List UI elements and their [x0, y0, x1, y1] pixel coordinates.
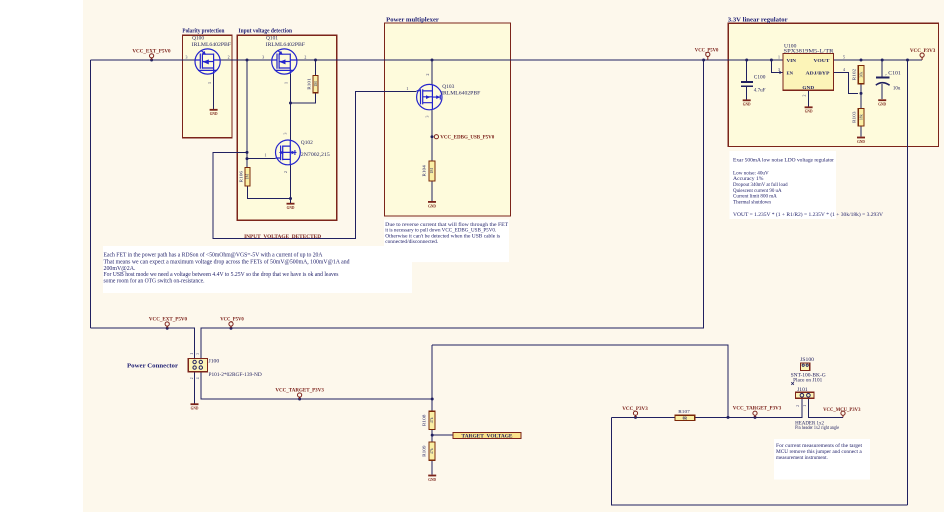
- resistor R109: [421, 442, 435, 460]
- junction detect loop upper: [246, 151, 249, 154]
- svg-text:2: 2: [228, 55, 230, 59]
- wire VCC_TARGET rail y345: [432, 345, 728, 417]
- wire Q103 source stem: [431, 60, 433, 85]
- svg-text:VIN: VIN: [787, 58, 797, 63]
- svg-text:3: 3: [426, 115, 430, 117]
- wire R101 top stem: [315, 60, 317, 75]
- svg-text:30k: 30k: [859, 72, 863, 78]
- junction Q101 gate R101: [289, 102, 292, 105]
- svg-text:1: 1: [190, 353, 194, 355]
- svg-text:1: 1: [406, 87, 408, 91]
- svg-text:47k: 47k: [430, 417, 434, 423]
- svg-text:200mV@2A.: 200mV@2A.: [104, 266, 137, 272]
- resistor R103: [852, 109, 864, 127]
- power flag VCC_P5V0 bottom: [220, 317, 244, 329]
- resistor R102: [852, 66, 864, 84]
- transistor Q103: [417, 84, 442, 109]
- transistor Q102: [276, 140, 301, 165]
- svg-text:C100: C100: [754, 76, 766, 81]
- junction R102 on VOUT rail: [860, 59, 863, 62]
- resistor R106: [238, 167, 250, 186]
- svg-text:2: 2: [803, 94, 807, 96]
- power flag VCC_MCU_P3V3: [823, 407, 861, 418]
- wire C100 stems: [746, 60, 748, 99]
- wire J100 pin4 VCC_TARGET_P3V3: [201, 372, 432, 399]
- junction VCC_P5V0 flag lower rail: [230, 327, 233, 330]
- svg-text:3.3V linear regulator: 3.3V linear regulator: [728, 17, 788, 24]
- note: current measurement jumper: [774, 439, 870, 480]
- ground Q100 gate: [210, 74, 218, 116]
- svg-text:GND: GND: [428, 203, 436, 208]
- svg-text:4: 4: [843, 68, 845, 72]
- transistor Q101: [272, 49, 297, 74]
- svg-text:1: 1: [803, 405, 807, 407]
- wire U100 GND pin stem: [808, 90, 810, 106]
- svg-text:For USB host mode we need a vo: For USB host mode we need a voltage betw…: [104, 272, 340, 278]
- svg-text:1M: 1M: [246, 174, 250, 180]
- wire INPUT_VOLTAGE_DETECTED loop to Q103 gate: [213, 92, 416, 239]
- svg-text:Input voltage detection: Input voltage detection: [239, 27, 293, 34]
- junction EN pin: [779, 71, 781, 73]
- svg-text:GND: GND: [857, 139, 865, 144]
- wire J101 pin2 to VCC_MCU_P3V3: [808, 398, 843, 417]
- svg-text:Power Connector: Power Connector: [127, 363, 178, 370]
- resistor R108: [421, 411, 435, 429]
- power flag VCC_P5V0 top: [695, 48, 719, 60]
- junction R101 on rail: [314, 59, 317, 62]
- svg-text:4.7uF: 4.7uF: [754, 89, 766, 94]
- junction VCC_EXT_P5V0 flag on rail: [150, 59, 153, 62]
- svg-text:R109: R109: [421, 444, 426, 456]
- power flag VCC_EXT_P5V0 bottom: [149, 317, 188, 329]
- svg-text:JS100: JS100: [800, 358, 815, 363]
- power flag VCC_TARGET_P3V3 bottom: [733, 406, 782, 418]
- svg-text:GND: GND: [210, 111, 218, 116]
- wire Q101 gate to Q102 drain: [290, 74, 292, 140]
- capacitor C100: [741, 76, 766, 94]
- wire U100 ADJ to divider: [834, 73, 859, 94]
- svg-text:ADJ/BYP: ADJ/BYP: [806, 70, 831, 75]
- junction VCC_EDBG_USB_P5V0 flag: [431, 135, 434, 138]
- U100 regulator body: [778, 45, 845, 97]
- wire VCC_P3V3 loop bottom and left vertical: [612, 417, 908, 505]
- svg-text:GND: GND: [802, 85, 814, 90]
- ground C100: [743, 99, 751, 106]
- svg-text:2: 2: [796, 405, 800, 407]
- block frame: Power multiplexer: [385, 17, 511, 217]
- svg-text:3: 3: [283, 132, 287, 134]
- wire J100 pin2 to GND: [194, 372, 196, 404]
- svg-text:Power multiplexer: Power multiplexer: [386, 17, 439, 24]
- title: Power Connector: [127, 363, 178, 370]
- svg-text:18k: 18k: [859, 114, 863, 120]
- svg-text:1: 1: [208, 82, 212, 84]
- svg-text:GND: GND: [428, 477, 436, 482]
- resistor R107: [675, 409, 695, 421]
- svg-text:connected/disconnected.: connected/disconnected.: [385, 239, 439, 245]
- power flag VCC_P3V3 bottom: [622, 406, 648, 417]
- wire R103 bottom to GND: [860, 126, 862, 137]
- svg-text:IRLML6402PBF: IRLML6402PBF: [266, 43, 306, 48]
- wire U100 EN from VIN rail: [771, 60, 783, 73]
- wire C101 stems: [881, 60, 883, 99]
- wire Q102 source to GND: [290, 165, 292, 203]
- svg-text:IRLML6402PBF: IRLML6402PBF: [192, 43, 232, 48]
- svg-text:1M: 1M: [314, 81, 318, 87]
- svg-text:0R: 0R: [683, 417, 688, 421]
- jumper JS100: [791, 358, 827, 385]
- svg-text:Q102: Q102: [301, 141, 314, 146]
- global label TARGET_VOLTAGE: [453, 432, 521, 439]
- svg-text:5: 5: [843, 55, 845, 59]
- wire divider node to TARGET_VOLTAGE label: [432, 434, 453, 436]
- svg-text:some room for an OTG switch on: some room for an OTG switch on-resistanc…: [104, 277, 206, 284]
- svg-text:3: 3: [262, 55, 264, 59]
- svg-text:VCC_TARGET_P3V3: VCC_TARGET_P3V3: [275, 387, 324, 393]
- junction ADJ divider node: [860, 92, 863, 95]
- svg-text:GND: GND: [743, 102, 751, 107]
- wire R106 bottom to Q102 source: [248, 186, 291, 198]
- power flag VCC_TARGET_P3V3 at J100: [275, 387, 324, 399]
- svg-text:1M: 1M: [430, 168, 434, 174]
- svg-text:J100: J100: [209, 359, 220, 364]
- svg-text:Thermal shutdown: Thermal shutdown: [733, 199, 771, 205]
- junction VCC_TARGET_P3V3 flag mid: [298, 398, 301, 401]
- svg-text:Exar 500mA low noise LDO volta: Exar 500mA low noise LDO voltage regulat…: [733, 158, 834, 164]
- svg-text:2: 2: [284, 171, 288, 173]
- junction VCC_P3V3 flag bottom: [634, 416, 637, 419]
- svg-text:measurement instrument.: measurement instrument.: [776, 455, 828, 461]
- power flag VCC_EXT_P5V0 top: [132, 48, 171, 60]
- junction C100 on rail: [745, 59, 748, 62]
- ground U100: [805, 106, 813, 113]
- svg-text:3: 3: [196, 353, 200, 355]
- svg-text:Place on J101: Place on J101: [793, 378, 823, 383]
- svg-text:2N7002,215: 2N7002,215: [301, 153, 331, 158]
- ground Q102 source: [287, 203, 295, 210]
- connector J101: [795, 388, 839, 431]
- svg-text:1: 1: [265, 154, 267, 158]
- junction Q102 gate: [246, 157, 249, 160]
- svg-text:, C101: , C101: [885, 72, 901, 77]
- wire A right of R107 to J101 pin1: [695, 398, 802, 417]
- svg-text:For current measurements of th: For current measurements of the target: [776, 442, 862, 449]
- wire R108 chain vertical: [431, 345, 433, 475]
- svg-text:EN: EN: [787, 70, 794, 75]
- wire Q103 drain to R104: [431, 109, 433, 161]
- junction input-detect tap on rail: [246, 59, 249, 62]
- resistor R104: [421, 161, 435, 181]
- svg-text:3: 3: [186, 55, 188, 59]
- wire A left of R107: [612, 416, 676, 418]
- connector J100: [188, 353, 262, 380]
- wire R104 bottom to GND: [431, 181, 433, 201]
- svg-text:R102: R102: [852, 69, 857, 81]
- ground R103: [857, 137, 865, 144]
- svg-text:Q103: Q103: [442, 85, 455, 90]
- svg-text:4: 4: [196, 377, 200, 379]
- svg-text:47k: 47k: [430, 448, 434, 454]
- svg-text:Q100: Q100: [192, 37, 205, 42]
- ground C101: [878, 99, 886, 106]
- svg-text:P101-2*02RGF-139-ND: P101-2*02RGF-139-ND: [209, 373, 263, 378]
- wire lower rail VCC_EXT_P5V0 to J100 pin1: [91, 328, 195, 358]
- svg-text:GND: GND: [191, 406, 199, 411]
- note: FET voltage drop explanation: [103, 246, 412, 293]
- ground J100 pin2: [191, 403, 199, 410]
- resistor R101: [307, 75, 318, 92]
- svg-text:R101: R101: [307, 78, 312, 90]
- svg-text:Pin header 1x2 right angle: Pin header 1x2 right angle: [795, 426, 839, 431]
- power flag VCC_EDBG_USB_P5V0: [434, 135, 494, 141]
- svg-text:3: 3: [778, 68, 780, 72]
- svg-text:R108: R108: [421, 414, 426, 426]
- svg-text:Polarity protection: Polarity protection: [182, 27, 224, 34]
- svg-text:VCC_MCU_P3V3: VCC_MCU_P3V3: [823, 407, 861, 413]
- junction R108 top node: [431, 398, 434, 401]
- wire left vertical VCC_EXT_P5V0: [90, 60, 92, 328]
- svg-text:1: 1: [285, 82, 289, 84]
- ground R104: [428, 201, 436, 208]
- svg-text:INPUT_VOLTAGE_DETECTED: INPUT_VOLTAGE_DETECTED: [244, 234, 321, 240]
- junction R108 R109 divider node: [431, 434, 434, 437]
- svg-text:VOUT: VOUT: [814, 58, 830, 63]
- wire Q102 gate: [247, 158, 276, 160]
- wire R102-R103 divider stems: [860, 84, 862, 109]
- svg-text:IRLML6402PBF: IRLML6402PBF: [441, 91, 481, 96]
- svg-text:R106: R106: [238, 170, 243, 182]
- block frame: Polarity protection: [182, 27, 232, 138]
- block frame: 3.3V linear regulator: [728, 17, 939, 147]
- junction EN branch on rail: [770, 59, 773, 62]
- svg-text:Q101: Q101: [266, 37, 279, 42]
- junction Q102 source GND: [289, 197, 292, 200]
- junction Q103 source on rail: [431, 59, 434, 62]
- junction VCC_TARGET_P3V3 flag bottom: [754, 416, 757, 419]
- svg-text:VCC_EDBG_USB_P5V0: VCC_EDBG_USB_P5V0: [440, 136, 494, 141]
- svg-text:That means we can expect a max: That means we can expect a maximum volta…: [104, 258, 350, 265]
- label INPUT_VOLTAGE_DETECTED: [244, 234, 321, 240]
- svg-text:VOUT = 1.235V * (1 + R1/R2) =: VOUT = 1.235V * (1 + R1/R2) = 1.235V * (…: [733, 211, 883, 218]
- svg-text:10u: 10u: [893, 86, 901, 91]
- wire VCC_P3V3 long loop right vertical: [907, 60, 909, 505]
- svg-text:GND: GND: [287, 205, 295, 210]
- junction VCC_P5V0 riser on rail: [702, 59, 705, 62]
- svg-text:R107: R107: [678, 409, 690, 414]
- junction P3V3 loop riser on VOUT rail: [906, 59, 909, 62]
- capacitor C101 polarized: [876, 72, 902, 92]
- wire R101 bottom to Q101 gate: [291, 93, 316, 103]
- transistor Q100: [195, 49, 220, 74]
- svg-text:SPX3819M5-L/TR: SPX3819M5-L/TR: [784, 49, 835, 54]
- wire VOUT 3.3V rail: [834, 59, 923, 61]
- svg-text:2: 2: [304, 55, 306, 59]
- junction VCC_EXT_P5V0 flag lower rail: [166, 327, 169, 330]
- svg-text:VCC_TARGET_P3V3: VCC_TARGET_P3V3: [733, 406, 782, 412]
- svg-text:R104: R104: [421, 164, 426, 176]
- svg-text:GND: GND: [878, 102, 886, 107]
- svg-text:Each FET in the power path has: Each FET in the power path has a RDSon o…: [104, 252, 324, 259]
- svg-text:2: 2: [426, 73, 430, 75]
- svg-text:GND: GND: [805, 109, 813, 114]
- wire main 5V rail: [91, 59, 784, 61]
- junction C101 on VOUT rail: [881, 59, 884, 62]
- wire input detect vertical from rail to R106: [246, 60, 248, 167]
- svg-text:2: 2: [190, 377, 194, 379]
- wire lower rail VCC_P5V0 from J100 pin3: [201, 60, 704, 359]
- svg-text:TARGET_VOLTAGE: TARGET_VOLTAGE: [462, 434, 513, 440]
- block frame: Input voltage detection: [237, 27, 336, 220]
- junction target rail riser: [727, 416, 730, 419]
- note: reverse current pull-down explanation: [384, 220, 509, 263]
- svg-text:1: 1: [778, 55, 780, 59]
- power flag VCC_P3V3 regulator output: [910, 48, 936, 60]
- svg-text:R103: R103: [852, 111, 857, 123]
- ground R109: [428, 475, 436, 482]
- note: LDO characteristics: [730, 151, 884, 219]
